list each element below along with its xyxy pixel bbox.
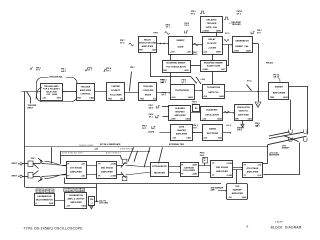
svg-text:SELECTOR: SELECTOR bbox=[46, 91, 57, 93]
svg-text:NORM TRIG LINE: NORM TRIG LINE bbox=[120, 148, 135, 150]
svg-text:GA06: GA06 bbox=[242, 196, 246, 199]
svg-text:PM8: PM8 bbox=[140, 99, 144, 101]
svg-text:PICKOFF: PICKOFF bbox=[207, 43, 217, 45]
svg-text:PM1: PM1 bbox=[76, 190, 80, 192]
svg-text:GATED: GATED bbox=[209, 127, 217, 130]
svg-text:AMPLIFIER: AMPLIFIER bbox=[216, 170, 228, 173]
svg-text:SL6: SL6 bbox=[153, 99, 156, 101]
svg-text:A: A bbox=[246, 224, 248, 228]
svg-text:LIMITER: LIMITER bbox=[112, 86, 121, 88]
svg-text:+100: +100 bbox=[66, 206, 70, 208]
svg-text:SWEEP CAL: SWEEP CAL bbox=[235, 45, 249, 48]
svg-text:PM1: PM1 bbox=[36, 191, 40, 193]
svg-text:GA7: GA7 bbox=[221, 68, 225, 71]
svg-text:INT MILL SWEEPGATE: INT MILL SWEEPGATE bbox=[100, 143, 121, 146]
svg-text:GA 10: GA 10 bbox=[273, 76, 280, 79]
svg-text:GA6: GA6 bbox=[218, 137, 222, 140]
svg-text:FOLLOWER: FOLLOWER bbox=[110, 94, 122, 96]
svg-text:FOLLOWER: FOLLOWER bbox=[183, 170, 195, 172]
svg-text:FOR & POLARITY: FOR & POLARITY bbox=[43, 88, 60, 91]
svg-text:TRIGGER SEL: TRIGGER SEL bbox=[49, 77, 63, 79]
svg-text:PM7: PM7 bbox=[139, 50, 143, 52]
svg-text:AMPLIFIER: AMPLIFIER bbox=[101, 171, 113, 174]
svg-text:+100V: +100V bbox=[184, 70, 190, 72]
svg-text:+100MS: +100MS bbox=[208, 47, 217, 49]
svg-text:+1: +1 bbox=[35, 203, 37, 205]
svg-text:+150M: +150M bbox=[110, 164, 116, 166]
svg-text:GATE CAL: GATE CAL bbox=[206, 26, 218, 29]
svg-text:RELAY: RELAY bbox=[144, 39, 152, 42]
svg-text:TRIGGER: TRIGGER bbox=[81, 86, 91, 88]
svg-text:+GATE: +GATE bbox=[148, 131, 155, 134]
svg-text:TRIGGER: TRIGGER bbox=[207, 23, 217, 25]
svg-text:CATHODE: CATHODE bbox=[184, 167, 195, 170]
svg-text:AMPLIFIER: AMPLIFIER bbox=[142, 45, 154, 48]
svg-text:RECTIFIER: RECTIFIER bbox=[207, 133, 219, 135]
svg-text:GA06: GA06 bbox=[186, 137, 190, 140]
svg-text:1ST STAGE: 1ST STAGE bbox=[70, 166, 82, 169]
svg-text:+150M: +150M bbox=[192, 165, 198, 167]
svg-text:GENERATOR: GENERATOR bbox=[235, 40, 249, 43]
svg-text:CALIBRATION: CALIBRATION bbox=[37, 195, 52, 198]
svg-text:TRIGGER: TRIGGER bbox=[232, 24, 242, 26]
svg-text:+300: +300 bbox=[187, 52, 191, 54]
svg-text:GA10: GA10 bbox=[283, 96, 288, 99]
svg-text:PM1: PM1 bbox=[65, 190, 69, 192]
svg-text:AMPL & OUTPUT: AMPL & OUTPUT bbox=[67, 197, 85, 200]
svg-text:TRIGGER: TRIGGER bbox=[143, 86, 153, 88]
svg-text:GA6: GA6 bbox=[152, 49, 156, 52]
svg-text:EXTERNAL TRIG: EXTERNAL TRIG bbox=[169, 143, 185, 146]
svg-text:DELAY: DELAY bbox=[208, 38, 216, 41]
svg-text:4TH STAGE: 4TH STAGE bbox=[247, 167, 260, 170]
svg-text:+100M: +100M bbox=[110, 176, 116, 178]
svg-text:GA06: GA06 bbox=[89, 97, 93, 100]
svg-text:INPUT: INPUT bbox=[12, 176, 19, 178]
svg-text:+150M: +150M bbox=[226, 163, 232, 165]
svg-text:GATE: GATE bbox=[179, 126, 185, 129]
svg-text:2ND STAGE: 2ND STAGE bbox=[101, 166, 114, 169]
svg-text:AMPLIFIER: AMPLIFIER bbox=[80, 89, 92, 92]
svg-text:INPUT: INPUT bbox=[28, 107, 35, 109]
svg-text:+150: +150 bbox=[94, 149, 98, 151]
svg-text:GA06: GA06 bbox=[49, 202, 53, 205]
svg-text:GATE: GATE bbox=[246, 50, 252, 53]
svg-text:DELAYED SWEEP: DELAYED SWEEP bbox=[79, 144, 94, 147]
svg-text:+150M: +150M bbox=[233, 51, 239, 53]
svg-text:+150: +150 bbox=[81, 176, 85, 178]
svg-text:TYPE OS-245B/U OSCILLOSCOPE: TYPE OS-245B/U OSCILLOSCOPE bbox=[23, 227, 82, 231]
svg-text:AMPLIFIER: AMPLIFIER bbox=[174, 114, 186, 117]
svg-text:GA06: GA06 bbox=[81, 205, 85, 208]
svg-text:CALIBRATION: CALIBRATION bbox=[69, 194, 84, 197]
svg-text:+150: +150 bbox=[202, 119, 206, 121]
svg-text:MODULATOR: MODULATOR bbox=[237, 106, 250, 109]
svg-text:+150: +150 bbox=[172, 138, 176, 140]
svg-text:BLANKING: BLANKING bbox=[206, 109, 218, 112]
svg-text:+100: +100 bbox=[203, 96, 207, 98]
svg-text:SL6: SL6 bbox=[120, 99, 123, 101]
svg-text:PM9: PM9 bbox=[270, 97, 274, 99]
svg-text:+100M: +100M bbox=[192, 174, 198, 176]
svg-text:THYRATRON: THYRATRON bbox=[175, 89, 189, 92]
svg-text:+15 V: +15 V bbox=[226, 125, 232, 127]
svg-text:GATE: GATE bbox=[177, 45, 184, 48]
svg-text:+150: +150 bbox=[257, 165, 261, 167]
svg-text:GA6: GA6 bbox=[70, 189, 73, 192]
svg-text:MODIFIED SWEEP: MODIFIED SWEEP bbox=[204, 62, 224, 64]
svg-text:SLAVE GATE: SLAVE GATE bbox=[207, 65, 221, 68]
svg-text:PM1: PM1 bbox=[46, 191, 50, 193]
svg-text:CRT GRID: CRT GRID bbox=[99, 203, 109, 205]
svg-text:GA06: GA06 bbox=[217, 118, 222, 121]
svg-text:NETWORK: NETWORK bbox=[269, 155, 280, 157]
svg-text:GATE: GATE bbox=[216, 30, 222, 33]
svg-text:GA06: GA06 bbox=[188, 96, 193, 99]
svg-text:SELECTOR AND: SELECTOR AND bbox=[139, 42, 156, 45]
svg-text:PM8: PM8 bbox=[77, 98, 81, 100]
svg-text:+150: +150 bbox=[203, 52, 207, 54]
svg-text:+100: +100 bbox=[257, 175, 261, 177]
svg-text:+100MS: +100MS bbox=[202, 31, 209, 33]
svg-text:+100M: +100M bbox=[202, 69, 208, 71]
svg-text:+150: +150 bbox=[42, 98, 46, 100]
svg-text:INPUT: INPUT bbox=[12, 163, 19, 165]
svg-text:+1: +1 bbox=[91, 202, 93, 204]
svg-text:SWEEP: SWEEP bbox=[176, 40, 185, 42]
svg-text:AMPLIFIER: AMPLIFIER bbox=[232, 192, 244, 195]
svg-text:PM2: PM2 bbox=[163, 70, 167, 72]
svg-text:+100: +100 bbox=[171, 97, 175, 99]
svg-text:G2: G2 bbox=[203, 160, 205, 162]
svg-text:+100M: +100M bbox=[170, 119, 176, 121]
svg-text:+1M: +1M bbox=[228, 197, 232, 199]
svg-text:AMPLIFIER: AMPLIFIER bbox=[247, 170, 259, 173]
svg-text:MODIFIED SWEEP: MODIFIED SWEEP bbox=[167, 63, 187, 65]
svg-text:MARKER: MARKER bbox=[233, 189, 243, 192]
svg-text:GA6: GA6 bbox=[81, 189, 84, 192]
svg-text:GA06: GA06 bbox=[185, 118, 189, 121]
svg-text:THE: THE bbox=[235, 186, 240, 188]
svg-text:SHAPER: SHAPER bbox=[177, 129, 186, 132]
svg-text:GATE FOL: GATE FOL bbox=[239, 110, 250, 113]
svg-text:MULTIVIBRATOR: MULTIVIBRATOR bbox=[36, 198, 53, 201]
svg-text:PM 453: PM 453 bbox=[266, 62, 274, 65]
svg-text:GA06: GA06 bbox=[219, 95, 224, 98]
svg-text:AMPLIFIER: AMPLIFIER bbox=[176, 133, 188, 136]
svg-text:NETWORK: NETWORK bbox=[154, 172, 166, 174]
svg-text:+150: +150 bbox=[203, 138, 207, 140]
svg-text:3RD STAGE: 3RD STAGE bbox=[216, 166, 229, 169]
svg-text:GATE FOL: GATE FOL bbox=[208, 91, 219, 94]
svg-text:CONTROL: CONTROL bbox=[80, 94, 91, 96]
svg-text:P8: P8 bbox=[203, 158, 205, 160]
svg-text:THYRATRON: THYRATRON bbox=[207, 86, 221, 89]
svg-text:OSCILLATOR: OSCILLATOR bbox=[205, 113, 219, 116]
svg-text:TRIGGER AMPL: TRIGGER AMPL bbox=[44, 85, 60, 88]
svg-text:+100M: +100M bbox=[226, 175, 232, 177]
svg-text:7-66-96: 7-66-96 bbox=[275, 222, 283, 224]
svg-text:SWEEP: SWEEP bbox=[275, 87, 284, 89]
svg-text:COUPLING: COUPLING bbox=[143, 90, 154, 92]
svg-text:+100 GA06: +100 GA06 bbox=[46, 93, 57, 96]
svg-text:+150: +150 bbox=[170, 52, 174, 54]
svg-text:GA6: GA6 bbox=[40, 190, 43, 193]
svg-text:BLOCK DIAGRAM: BLOCK DIAGRAM bbox=[271, 225, 302, 229]
svg-text:VOLT REGULATOR: VOLT REGULATOR bbox=[166, 65, 186, 68]
svg-text:GA6: GA6 bbox=[50, 190, 53, 193]
svg-text:AMPLIFIER: AMPLIFIER bbox=[238, 114, 249, 117]
svg-text:+150: +150 bbox=[81, 164, 85, 166]
svg-text:AMPLIFIER: AMPLIFIER bbox=[273, 91, 286, 94]
svg-text:AMPLIFIER: AMPLIFIER bbox=[70, 171, 82, 174]
svg-text:PM8: PM8 bbox=[235, 119, 238, 121]
svg-text:AMP: AMP bbox=[211, 189, 216, 192]
svg-text:GATE: GATE bbox=[216, 51, 222, 54]
svg-text:ATTENUATOR: ATTENUATOR bbox=[152, 165, 167, 168]
svg-text:SWEEP: SWEEP bbox=[282, 148, 290, 150]
svg-text:SCHMITT: SCHMITT bbox=[111, 90, 121, 92]
svg-text:PM8: PM8 bbox=[108, 99, 112, 101]
svg-text:SHAPING: SHAPING bbox=[175, 110, 185, 113]
svg-text:PM 1: PM 1 bbox=[31, 158, 35, 160]
svg-text:DELAYED: DELAYED bbox=[206, 19, 217, 22]
svg-text:MODE: MODE bbox=[145, 94, 152, 96]
svg-text:GLASSES: GLASSES bbox=[175, 107, 186, 110]
svg-text:AMPLIFIER: AMPLIFIER bbox=[70, 201, 82, 204]
